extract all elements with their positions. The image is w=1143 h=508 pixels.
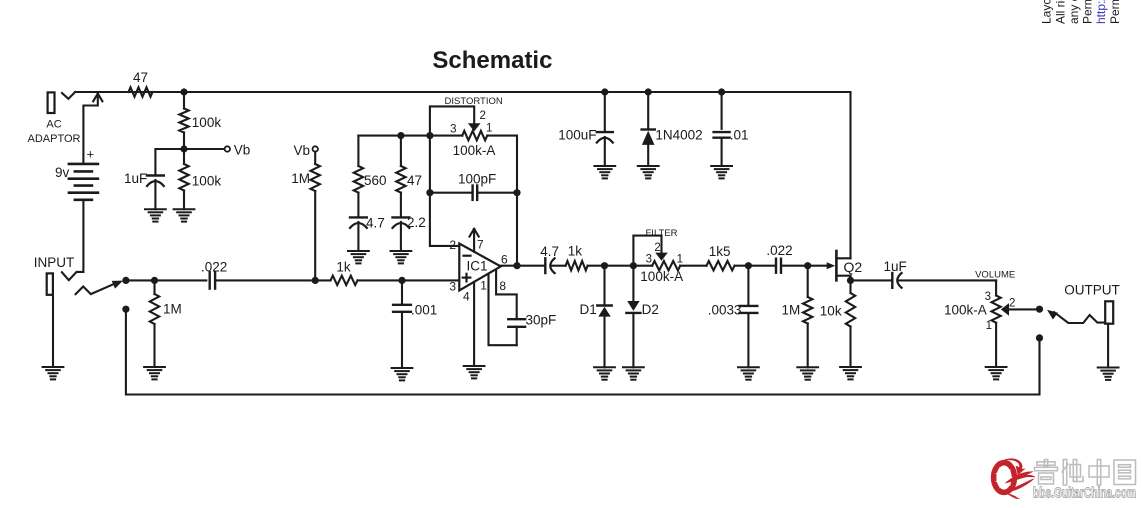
junction Q2 source bbox=[847, 277, 854, 284]
svg-text:1k5: 1k5 bbox=[709, 244, 731, 259]
junction Vb bias bbox=[312, 277, 319, 284]
ground (input jack) bbox=[43, 367, 64, 379]
svg-text:VOLUME: VOLUME bbox=[975, 270, 1015, 281]
junction 100pF left bbox=[426, 189, 433, 196]
svg-text:100pF: 100pF bbox=[458, 172, 496, 187]
svg-text:100k: 100k bbox=[192, 115, 222, 130]
node Vb (op-amp bias) bbox=[293, 143, 317, 158]
ground (100k divider) bbox=[174, 209, 195, 221]
ground (1N4002) bbox=[638, 166, 659, 178]
svg-text:1M: 1M bbox=[163, 302, 182, 317]
svg-text:D1: D1 bbox=[580, 302, 597, 317]
svg-text:FILTER: FILTER bbox=[646, 228, 678, 239]
capacitor 100uF bbox=[558, 92, 613, 166]
svg-text:6: 6 bbox=[501, 253, 508, 267]
resistor 1k (input) bbox=[331, 260, 358, 286]
diode 1N4002 bbox=[642, 92, 703, 166]
watermark logo GuitarChina bbox=[994, 458, 1136, 501]
capacitor 100pF bbox=[430, 172, 517, 200]
capacitor .022 (input) bbox=[201, 260, 227, 289]
svg-text:OUTPUT: OUTPUT bbox=[1064, 283, 1120, 298]
diode D2 bbox=[626, 266, 658, 368]
junction 1N4002 bbox=[645, 88, 652, 95]
junction .001 bbox=[398, 277, 405, 284]
bypass switch (input) bbox=[76, 281, 123, 295]
junction 1M output bbox=[804, 262, 811, 269]
wire feedback right vertical bbox=[516, 136, 518, 266]
junction 100uF bbox=[601, 88, 608, 95]
svg-text:100uF: 100uF bbox=[558, 128, 596, 143]
svg-text:INPUT: INPUT bbox=[34, 255, 74, 270]
ground (.01) bbox=[711, 166, 732, 178]
capacitor 1uF (bias filter) bbox=[124, 149, 184, 209]
wire 1k to filter pot bbox=[588, 265, 653, 267]
pin 8 wire bbox=[496, 270, 517, 320]
svg-text:http://www.tonepad.com: http://www.tonepad.com bbox=[1094, 0, 1108, 24]
junction D1 bbox=[601, 262, 608, 269]
svg-text:bbs.GuitarChina.com: bbs.GuitarChina.com bbox=[1033, 485, 1136, 502]
resistor 10k bbox=[820, 280, 855, 367]
resistor 47 (power) bbox=[129, 70, 153, 97]
svg-text:.01: .01 bbox=[730, 128, 749, 143]
svg-text:ADAPTOR: ADAPTOR bbox=[28, 133, 81, 145]
capacitor .022 (output) bbox=[766, 243, 792, 273]
svg-text:Schematic: Schematic bbox=[432, 47, 552, 74]
svg-text:1: 1 bbox=[480, 279, 487, 293]
wire V+ top rail bbox=[75, 91, 850, 93]
wire input line bbox=[129, 279, 206, 281]
capacitor 4.7 (feedback) bbox=[350, 216, 385, 252]
svg-text:.0033: .0033 bbox=[708, 303, 742, 318]
svg-text:3: 3 bbox=[985, 291, 991, 303]
copyright text (rotated) bbox=[1040, 0, 1122, 24]
svg-text:.022: .022 bbox=[766, 243, 792, 258]
resistor 47 (feedback) bbox=[396, 136, 422, 218]
svg-text:All rights reserved.: All rights reserved. bbox=[1053, 0, 1067, 24]
svg-text:10k: 10k bbox=[820, 304, 842, 319]
resistor 1M (output) bbox=[782, 266, 813, 368]
ground (.001) bbox=[392, 368, 413, 380]
wire 1k to op-amp pin3 bbox=[358, 279, 460, 281]
svg-text:2: 2 bbox=[1009, 298, 1015, 310]
junction D2 bbox=[630, 262, 637, 269]
svg-text:1: 1 bbox=[986, 320, 992, 332]
svg-text:D2: D2 bbox=[642, 302, 659, 317]
svg-text:2: 2 bbox=[480, 110, 486, 122]
transistor Q2 bbox=[827, 251, 863, 280]
wire bypass rail bbox=[126, 312, 1040, 394]
svg-text:2.2: 2.2 bbox=[407, 215, 426, 230]
node input tip bbox=[122, 277, 129, 284]
junction Vb divider bbox=[180, 145, 187, 152]
resistor 1k (output) bbox=[566, 244, 588, 271]
wire 1k5 to .022 bbox=[735, 265, 776, 267]
svg-text:47: 47 bbox=[407, 173, 422, 188]
junction feedback left bbox=[426, 132, 433, 139]
wire to Vb junction bbox=[215, 279, 330, 281]
svg-text:1M: 1M bbox=[782, 303, 801, 318]
wire pot pin1 to feedback right bbox=[487, 135, 517, 137]
svg-text:1k: 1k bbox=[336, 260, 351, 275]
wire Q2 drain to V+ rail bbox=[849, 92, 851, 258]
input jack J1 bbox=[34, 255, 74, 367]
output jack J2 bbox=[1064, 283, 1120, 368]
svg-text:1: 1 bbox=[677, 254, 683, 266]
wire filter pot to 1k5 bbox=[680, 265, 706, 267]
resistor 1k5 bbox=[707, 244, 735, 270]
wire .022 to Q2 gate bbox=[782, 265, 828, 267]
node output bypass bbox=[1036, 334, 1043, 341]
wire 4.7 to 1k bbox=[551, 265, 566, 267]
ground (D2) bbox=[623, 367, 644, 379]
svg-text:Layout by tonepad.com: Layout by tonepad.com bbox=[1040, 0, 1054, 24]
svg-text:Vb: Vb bbox=[293, 143, 310, 158]
ground (100uF) bbox=[594, 166, 615, 178]
title bbox=[432, 47, 552, 74]
junction 47 feedback bbox=[397, 132, 404, 139]
svg-text:4.7: 4.7 bbox=[540, 244, 559, 259]
svg-text:100k-A: 100k-A bbox=[944, 303, 987, 318]
junction V+ / divider bbox=[180, 88, 187, 95]
capacitor 4.7 (output) bbox=[540, 244, 559, 273]
pin 4 ground wire bbox=[473, 282, 475, 366]
ground (1uF bias) bbox=[145, 209, 166, 221]
junction .01 bbox=[718, 88, 725, 95]
battery arrow to rail bbox=[83, 94, 102, 164]
svg-text:1N4002: 1N4002 bbox=[655, 128, 702, 143]
ground (1M input) bbox=[144, 367, 165, 379]
svg-text:1k: 1k bbox=[568, 244, 583, 259]
svg-text:AC: AC bbox=[46, 119, 61, 131]
svg-text:1uF: 1uF bbox=[884, 259, 907, 274]
wire pin2 path bbox=[430, 136, 459, 246]
svg-text:100k: 100k bbox=[192, 174, 222, 189]
svg-text:Permission is granted for: Permission is granted for bbox=[1081, 0, 1095, 24]
svg-text:9v: 9v bbox=[55, 165, 70, 180]
svg-text:7: 7 bbox=[477, 238, 484, 252]
svg-text:+: + bbox=[87, 147, 95, 162]
svg-text:47: 47 bbox=[133, 70, 148, 85]
svg-text:Q2: Q2 bbox=[844, 259, 863, 275]
svg-text:4.7: 4.7 bbox=[366, 216, 385, 231]
wire op-amp output bbox=[501, 265, 546, 267]
ground (2.2 cap) bbox=[391, 251, 412, 263]
wire feedback top rail bbox=[358, 135, 462, 137]
svg-text:30pF: 30pF bbox=[526, 313, 557, 328]
capacitor 1uF (output) bbox=[884, 259, 907, 288]
capacitor 30pF bbox=[508, 313, 556, 346]
resistor 1M (input) bbox=[150, 280, 182, 367]
potentiometer FILTER 100k-A bbox=[633, 228, 683, 284]
svg-text:100k-A: 100k-A bbox=[453, 143, 496, 158]
capacitor .001 bbox=[393, 280, 437, 368]
junction op-amp output bbox=[513, 262, 520, 269]
node Vb (divider tap) bbox=[184, 143, 250, 158]
svg-text:3: 3 bbox=[449, 280, 456, 294]
node output tip bbox=[1036, 306, 1043, 313]
diode D1 bbox=[580, 266, 612, 368]
svg-text:2: 2 bbox=[449, 238, 456, 252]
svg-text:4: 4 bbox=[463, 290, 470, 304]
pin 7 power arrow bbox=[470, 229, 479, 252]
capacitor 2.2 (feedback) bbox=[393, 215, 426, 251]
wire 1uF to volume pot bbox=[898, 279, 996, 281]
ground (10k) bbox=[840, 367, 861, 379]
resistor 100k (lower) bbox=[179, 149, 221, 209]
svg-text:2: 2 bbox=[654, 242, 660, 254]
ground (D1) bbox=[594, 367, 615, 379]
ground (volume pot) bbox=[986, 367, 1007, 379]
wire battery minus to input jack bbox=[62, 200, 84, 280]
junction 100pF right bbox=[513, 189, 520, 196]
AC adaptor jack J3 bbox=[28, 92, 81, 145]
bypass switch (output) bbox=[1047, 310, 1105, 323]
pin 1 wire bbox=[489, 274, 517, 345]
ground (.0033) bbox=[738, 367, 759, 379]
ground (output jack) bbox=[1098, 368, 1119, 380]
svg-text:1: 1 bbox=[486, 123, 492, 135]
svg-text:1uF: 1uF bbox=[124, 171, 147, 186]
resistor 100k (upper) bbox=[179, 92, 221, 149]
wire wiper to output node bbox=[1009, 308, 1040, 310]
svg-text:IC1: IC1 bbox=[467, 259, 488, 274]
capacitor .01 bbox=[714, 92, 749, 166]
potentiometer DISTORTION 100k-A bbox=[430, 96, 503, 158]
svg-text:560: 560 bbox=[364, 173, 387, 188]
resistor 1M (bias) bbox=[291, 152, 320, 281]
resistor 560 bbox=[354, 136, 387, 218]
junction 1M input bbox=[151, 277, 158, 284]
wire Q2 source to 1uF bbox=[851, 279, 893, 281]
svg-text:3: 3 bbox=[646, 254, 652, 266]
ground (1M output) bbox=[797, 367, 818, 379]
svg-text:.022: .022 bbox=[201, 260, 227, 275]
svg-text:3: 3 bbox=[450, 124, 456, 136]
svg-text:1M: 1M bbox=[291, 171, 310, 186]
svg-text:any commercial use prohibited.: any commercial use prohibited. bbox=[1067, 0, 1081, 24]
ground (4.7 cap) bbox=[348, 251, 369, 263]
svg-text:100k-A: 100k-A bbox=[640, 269, 683, 284]
capacitor .0033 bbox=[708, 266, 758, 368]
svg-text:8: 8 bbox=[499, 279, 506, 293]
svg-text:DISTORTION: DISTORTION bbox=[445, 96, 503, 107]
op-amp IC1 bbox=[449, 238, 508, 304]
ground (IC1 pin4) bbox=[464, 366, 485, 378]
battery BT1 9v bbox=[55, 147, 98, 200]
svg-text:.001: .001 bbox=[411, 303, 437, 318]
potentiometer VOLUME 100k-A bbox=[944, 270, 1015, 368]
svg-text:Permission granted for: Permission granted for bbox=[1108, 0, 1122, 24]
junction .0033 bbox=[745, 262, 752, 269]
svg-text:Vb: Vb bbox=[234, 143, 251, 158]
node input bypass bbox=[122, 306, 129, 313]
